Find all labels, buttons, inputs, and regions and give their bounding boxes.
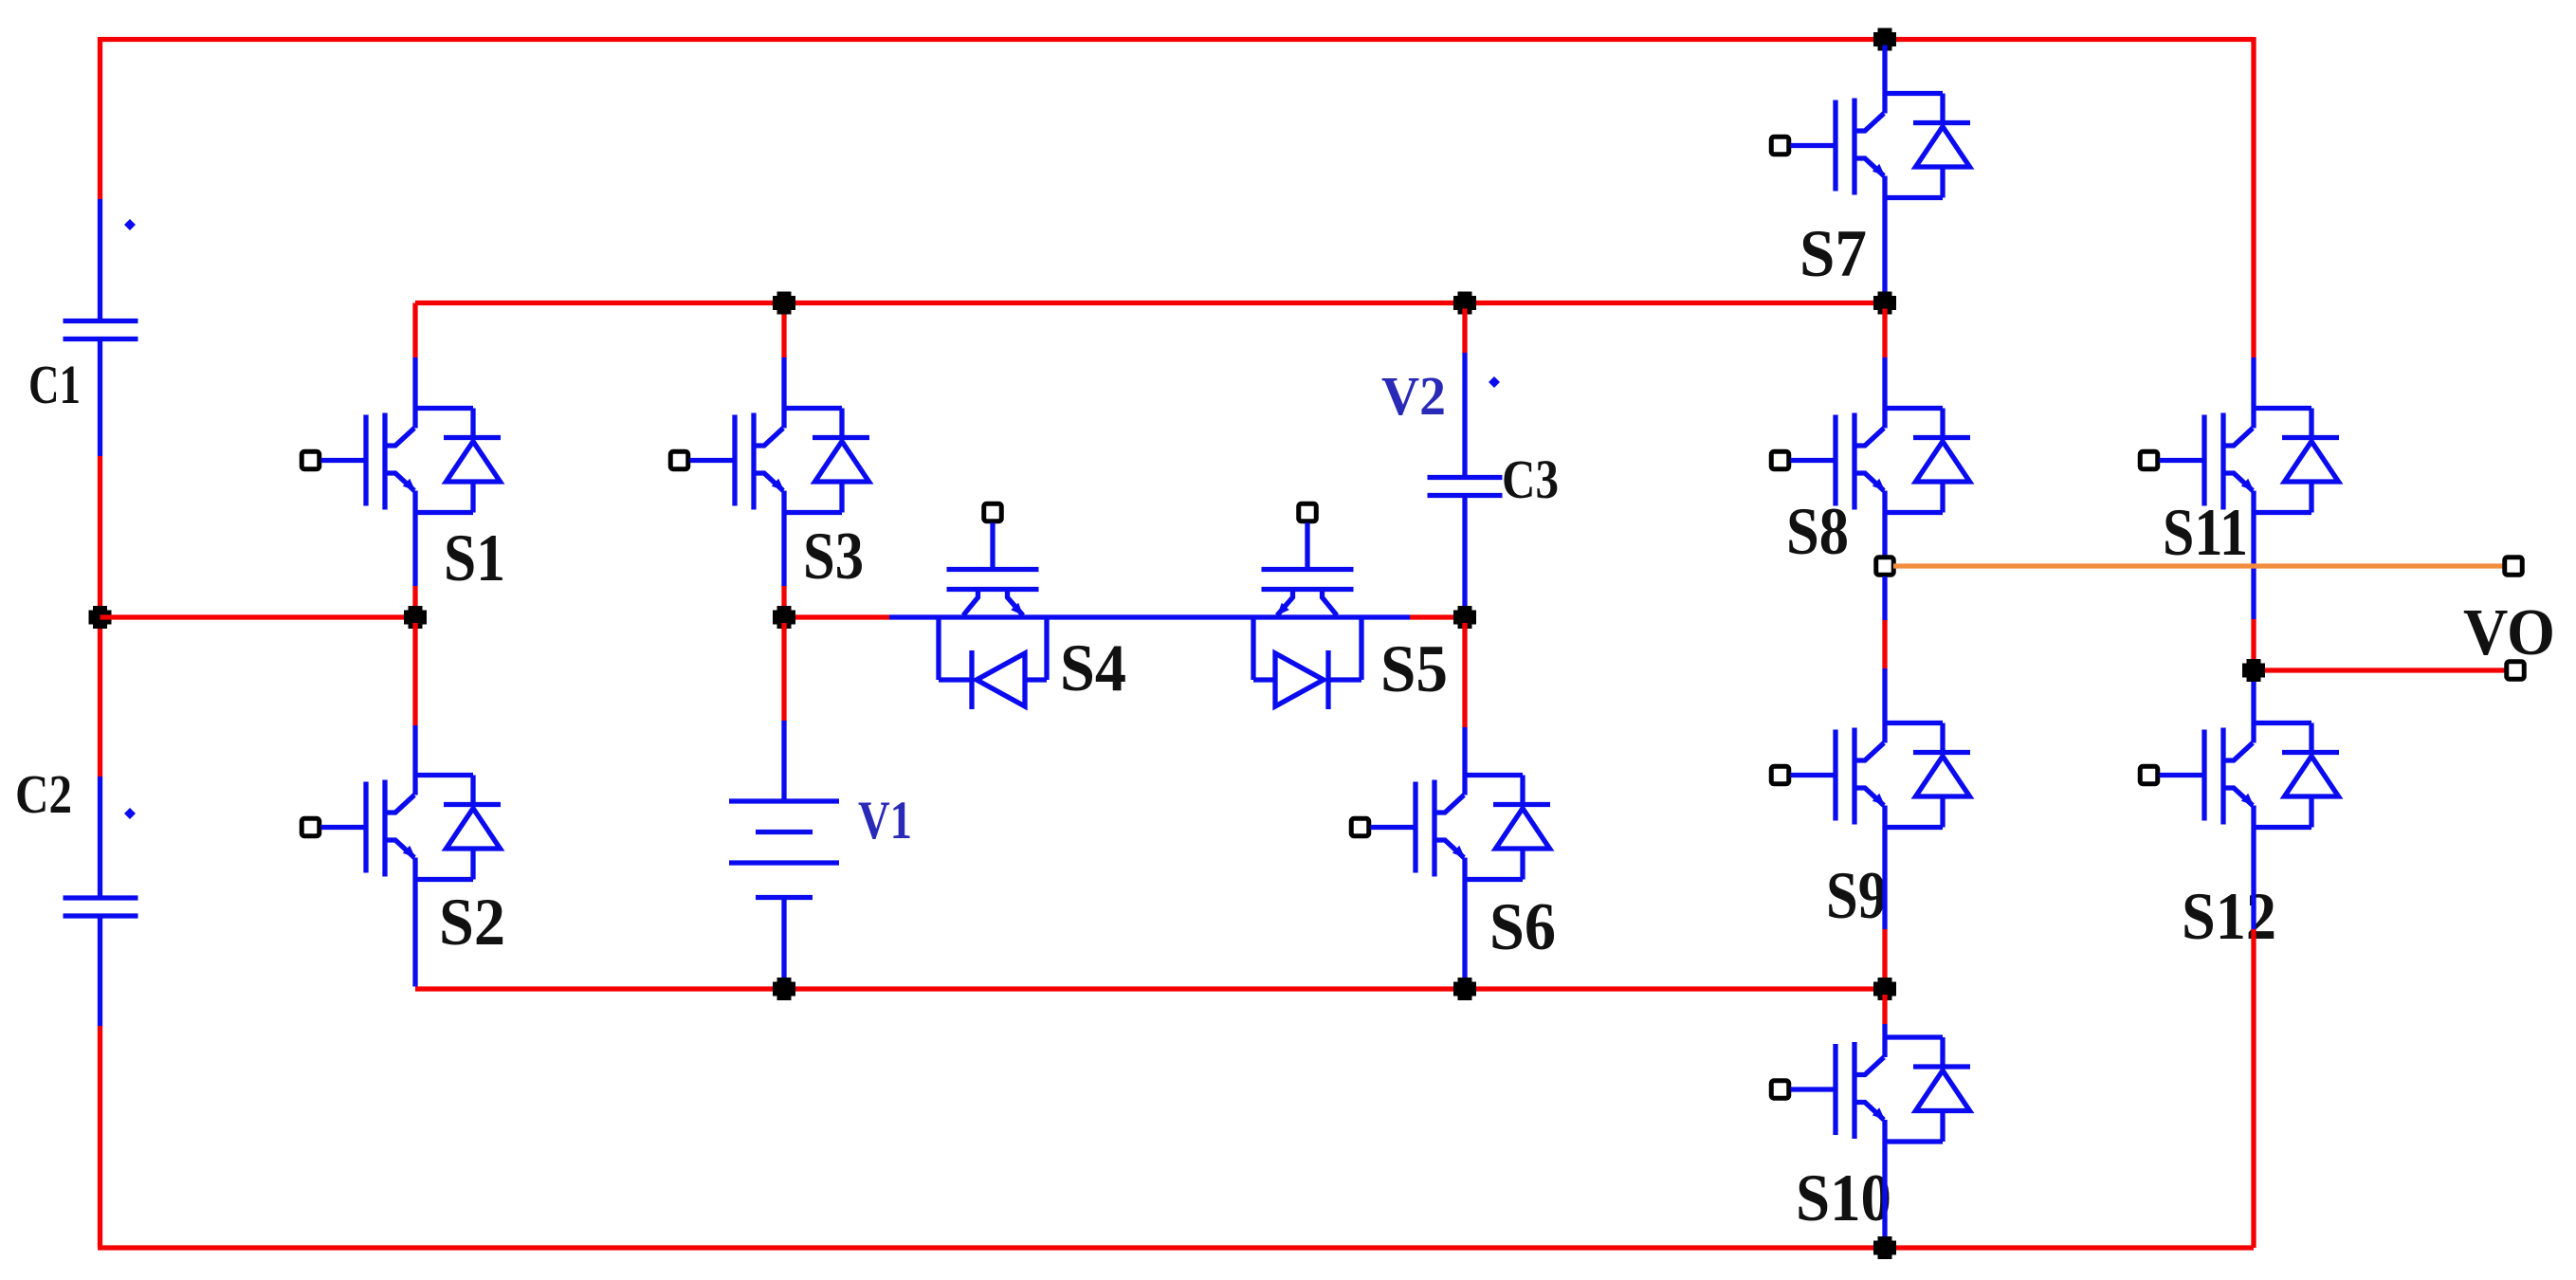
svg-text:C1: C1 [28, 354, 81, 415]
svg-text:VO: VO [2463, 596, 2555, 669]
wire S11 collector blue [2251, 357, 2256, 409]
node C3 top junction [1453, 292, 1476, 315]
svg-text:S8: S8 [1786, 495, 1849, 569]
svg-text:S6: S6 [1489, 890, 1556, 964]
wire S5 right red [1410, 614, 1453, 619]
wire VO red [2265, 667, 2507, 672]
wire S8 collector blue [1882, 357, 1887, 409]
wire S1 emitter red [412, 586, 417, 612]
wire S6 emitter blue [1462, 880, 1467, 982]
wire S3 emitter red [781, 586, 786, 612]
wire mid rail left [100, 614, 416, 619]
switch S5 [1253, 503, 1361, 709]
wire S8 emitter blue [1882, 513, 1887, 557]
wire S2 emitter blue [412, 880, 417, 987]
transistor S11 [2140, 409, 2339, 513]
wire S12 collector blue [2251, 682, 2256, 723]
wire S8 collector red [1882, 309, 1887, 358]
capacitor C2 lead top [98, 777, 102, 898]
svg-text:S9: S9 [1826, 859, 1887, 933]
wire S9 top blue [1882, 576, 1887, 620]
node S1-S2 junction [404, 606, 427, 629]
wire S9 emitter blue [1882, 828, 1887, 930]
transistor S9 [1771, 723, 1970, 828]
wire S7 emitter blue [1882, 198, 1887, 298]
svg-text:S7: S7 [1800, 217, 1867, 291]
wire S1 collector red [412, 303, 417, 358]
svg-text:S5: S5 [1380, 632, 1448, 706]
svg-text:V1: V1 [858, 791, 912, 850]
svg-text:S10: S10 [1796, 1161, 1891, 1235]
wire top rail [100, 37, 2255, 42]
svg-text:C3: C3 [1502, 448, 1559, 510]
wire S3 emitter blue [781, 513, 786, 587]
capacitor C3 [1428, 478, 1503, 496]
diamond marker C1 [124, 219, 136, 230]
wire S10 emitter blue [1882, 1142, 1887, 1242]
transistor S2 [301, 776, 501, 880]
transistor S10 [1771, 1037, 1970, 1142]
diamond marker C2 [124, 808, 136, 819]
wire S4 left red [795, 614, 889, 619]
transistor S7 [1771, 94, 1970, 198]
wire bottom inner rail [415, 986, 1885, 991]
wire bottom rail [98, 1245, 2254, 1250]
wire output orange [1893, 563, 2505, 568]
wire V1 bottom blue [781, 898, 786, 982]
wire S10 collector blue [1882, 1024, 1887, 1037]
svg-text:S4: S4 [1060, 631, 1126, 705]
wire inner top rail [415, 301, 1885, 305]
wire left rail bottom red [98, 1026, 102, 1248]
wire S2 collector red [412, 623, 417, 725]
svg-text:C2: C2 [15, 763, 72, 825]
wire S9 top red [1882, 620, 1887, 668]
capacitor C2 [64, 898, 138, 916]
node left mid junction [89, 606, 112, 629]
node S5-C3-S6 junction [1453, 606, 1476, 629]
wire S7 collector blue [1882, 46, 1887, 94]
node S10 bottom junction [1873, 1236, 1896, 1259]
wire S11 emitter blue [2251, 513, 2256, 620]
wire S2 collector blue [412, 725, 417, 776]
wire S10 collector red [1882, 995, 1887, 1024]
svg-text:S2: S2 [439, 886, 505, 960]
node VO right terminal [2507, 662, 2525, 680]
wire S3 collector red [781, 303, 786, 358]
node S9-S10 junction [1873, 978, 1896, 1000]
wire S6 collector red [1462, 623, 1467, 727]
diamond marker V2 [1489, 376, 1500, 388]
battery V1 [729, 801, 839, 898]
transistor S12 [2140, 723, 2339, 828]
wire C3 top blue [1462, 353, 1467, 478]
transistor S1 [301, 409, 501, 513]
wire right rail red [2251, 37, 2256, 357]
node S6 bottom junction [1453, 978, 1476, 1000]
node S7 top junction [1873, 28, 1896, 51]
wire left rail top red [98, 37, 102, 199]
wire S4-S5 main blue [889, 614, 1410, 619]
wire right rail bottom red [2251, 929, 2256, 1248]
transistor S8 [1771, 409, 1970, 513]
wire V1 top blue [781, 721, 786, 801]
node S3-V1 junction [773, 606, 795, 629]
node S7-S8 junction [1873, 292, 1896, 315]
node VO junction [2242, 659, 2265, 682]
wire C3 bottom blue [1462, 496, 1467, 613]
transistor S6 [1351, 776, 1550, 880]
svg-text:S1: S1 [444, 521, 505, 595]
transistor S3 [670, 409, 869, 513]
svg-text:V2: V2 [1381, 365, 1446, 427]
wire left rail mid red [98, 456, 102, 777]
wire S6 collector blue [1462, 727, 1467, 776]
node V1 bottom junction [773, 978, 795, 1000]
wire C3 top red [1462, 309, 1467, 354]
svg-text:S3: S3 [803, 520, 864, 594]
switch S4 [939, 503, 1047, 709]
node output terminal S8-S9 [1876, 558, 1894, 576]
wire S11 emitter red [2251, 619, 2256, 659]
capacitor C1 lead top [98, 199, 102, 321]
node S3 top junction [773, 292, 795, 315]
wire S9 emitter red [1882, 929, 1887, 983]
capacitor C1 lead bottom [98, 339, 102, 456]
wire S3 collector blue [781, 357, 786, 409]
wire S12 emitter blue [2251, 828, 2256, 930]
svg-text:S11: S11 [2163, 496, 2248, 570]
wire S9 collector blue [1882, 668, 1887, 723]
wire S1 collector blue [412, 357, 417, 409]
node orange right terminal [2505, 558, 2523, 576]
wire S1 emitter blue [412, 513, 417, 587]
wire V1 top red [781, 623, 786, 721]
capacitor C2 lead bottom [98, 916, 102, 1026]
svg-text:S12: S12 [2182, 880, 2276, 954]
capacitor C1 [64, 321, 138, 339]
